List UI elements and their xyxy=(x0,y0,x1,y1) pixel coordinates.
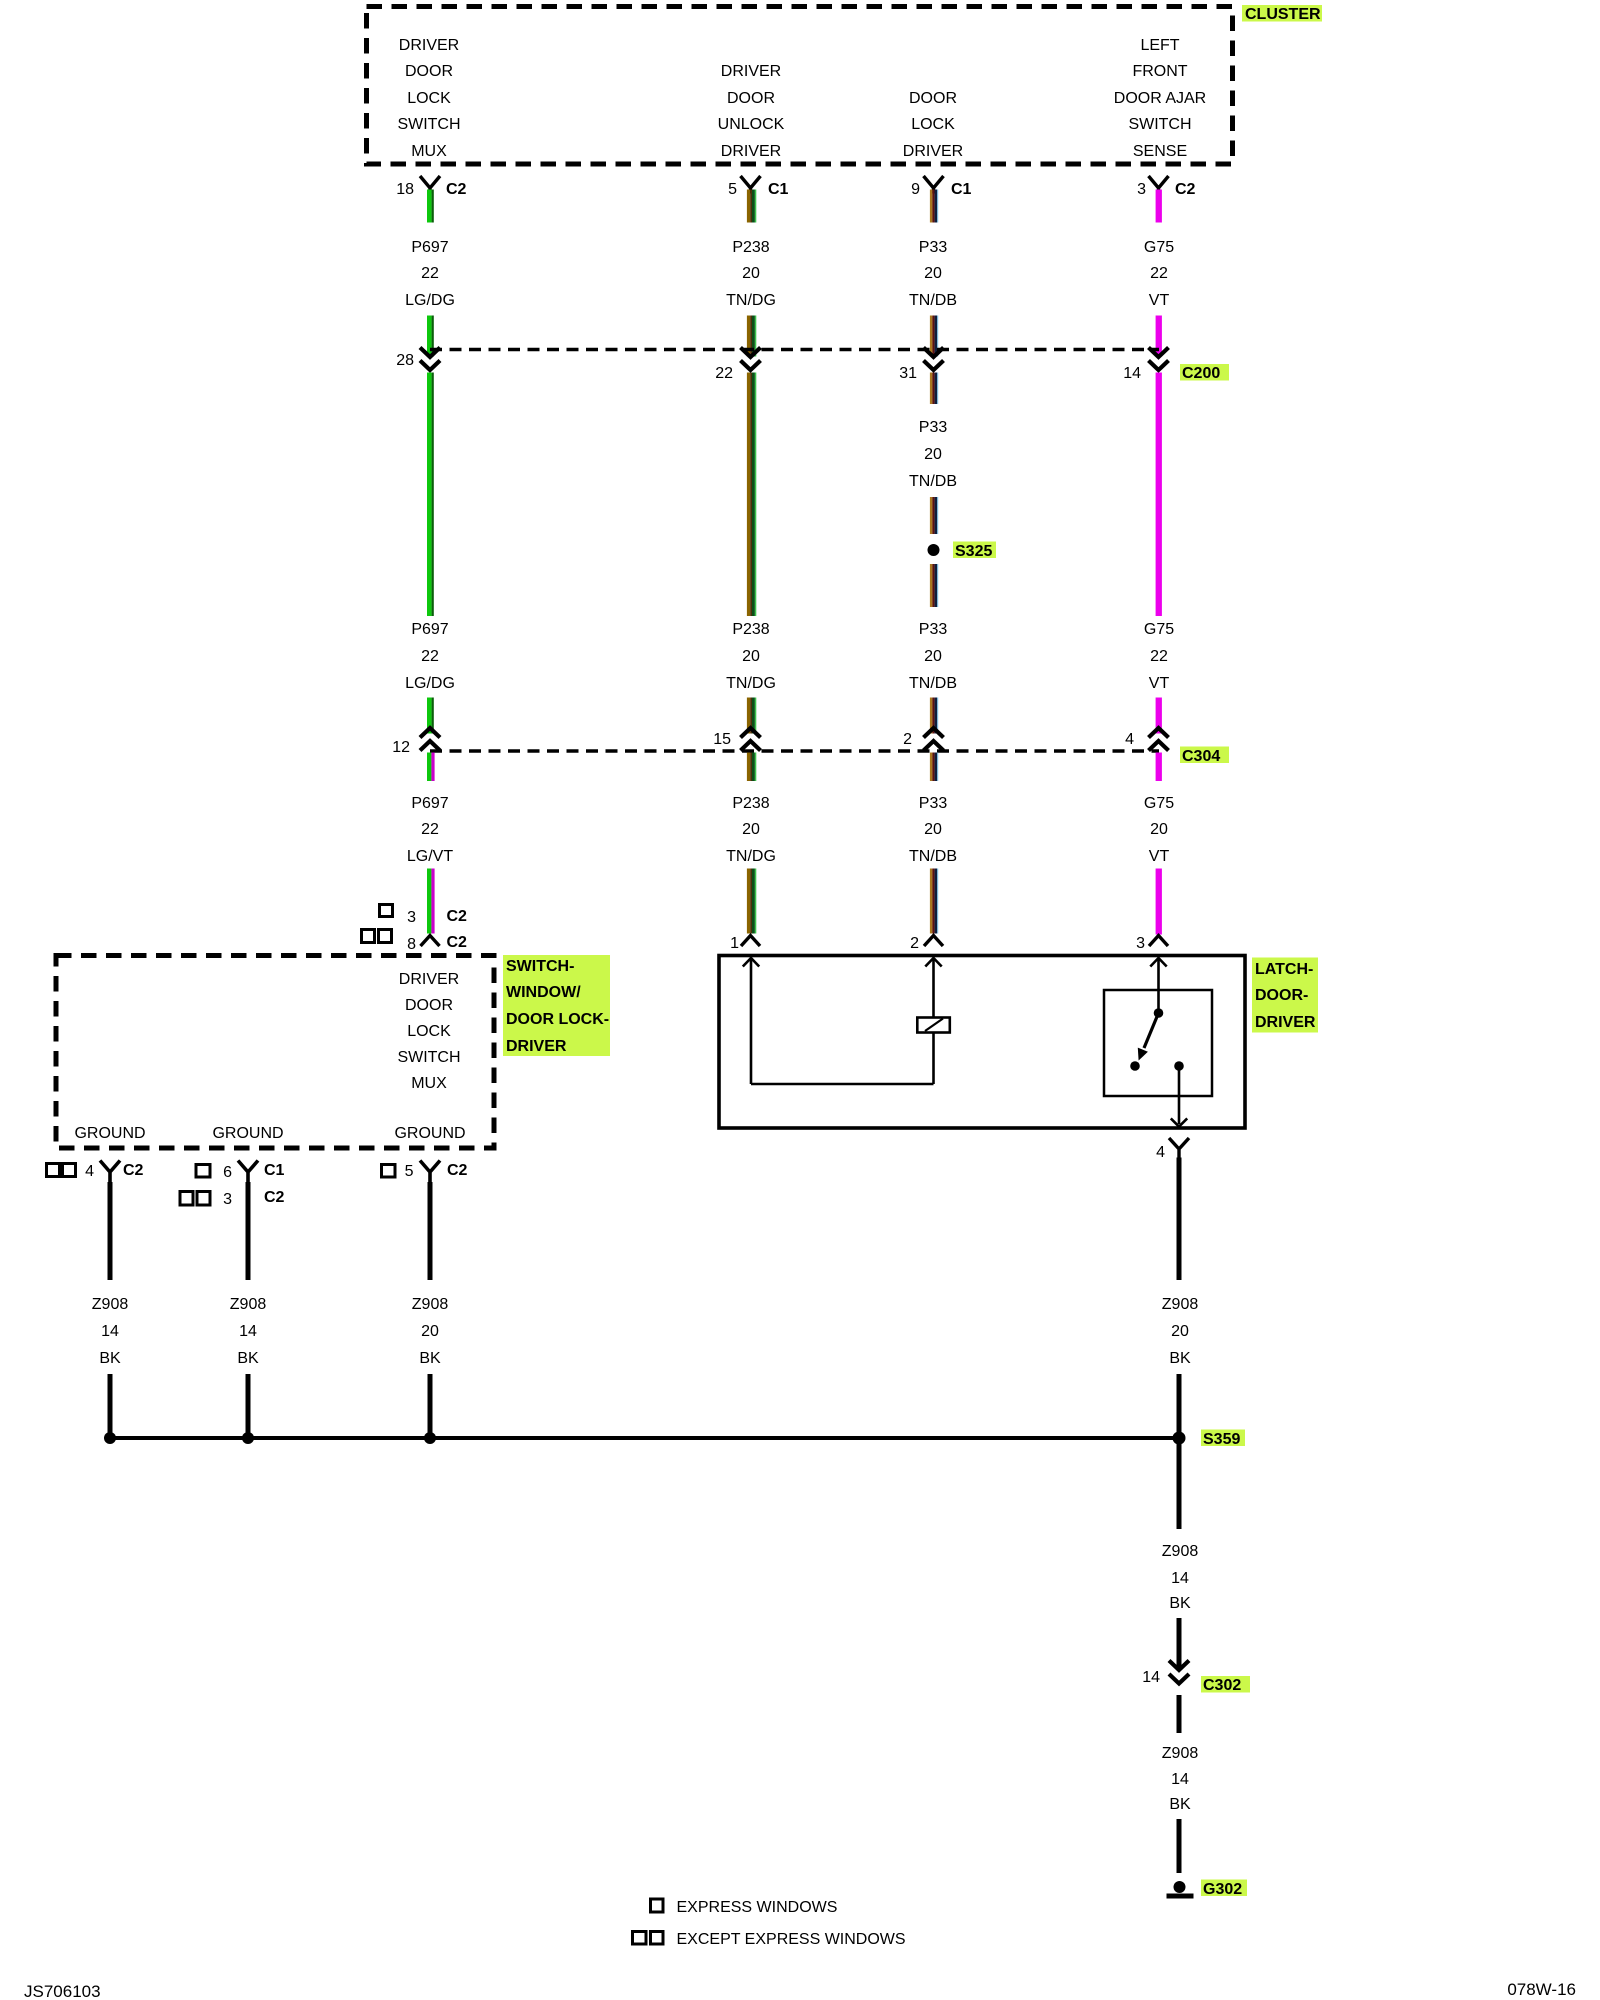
svg-text:C1: C1 xyxy=(768,181,789,198)
connector pin 3 (latch entry) xyxy=(1136,935,1168,952)
connector C304 pin 2 chevrons xyxy=(924,728,944,751)
svg-text:9: 9 xyxy=(911,181,920,198)
svg-text:1: 1 xyxy=(730,935,739,952)
svg-text:CLUSTER: CLUSTER xyxy=(1245,6,1321,23)
wire P238 20 TN/DG segment 5 xyxy=(747,753,756,782)
svg-text:28: 28 xyxy=(396,352,414,369)
wire Z908 ground left segment 2 xyxy=(108,1374,113,1436)
svg-text:C200: C200 xyxy=(1182,365,1220,382)
wire label P33 20 TN/DB (second) xyxy=(909,621,957,692)
svg-text:LOCK: LOCK xyxy=(407,90,451,107)
svg-text:12: 12 xyxy=(392,739,410,756)
svg-text:2: 2 xyxy=(910,935,919,952)
wire label P697 22 LG/DG (second) xyxy=(405,621,455,692)
svg-text:22: 22 xyxy=(421,265,439,282)
svg-text:P33: P33 xyxy=(919,419,948,436)
wire Z908 ground right segment 1 xyxy=(428,1182,433,1280)
svg-text:DRIVER: DRIVER xyxy=(399,971,459,988)
svg-text:20: 20 xyxy=(742,265,760,282)
wire label Z908 14 BK (left) xyxy=(92,1296,129,1367)
connector pin 5 C1 (cluster) xyxy=(728,176,788,198)
svg-text:BK: BK xyxy=(1169,1796,1191,1813)
wire label Z908 14 BK (below C302) xyxy=(1162,1745,1199,1813)
svg-text:3: 3 xyxy=(1137,181,1146,198)
wire internal pin1 arrow xyxy=(743,958,759,967)
svg-text:SWITCH-: SWITCH- xyxy=(506,958,574,975)
wire label P238 20 TN/DG (second) xyxy=(726,621,776,692)
svg-text:TN/DB: TN/DB xyxy=(909,675,957,692)
node SWITCH-WINDOW/DOOR LOCK-DRIVER label xyxy=(503,955,610,1056)
svg-text:G302: G302 xyxy=(1203,1881,1242,1898)
svg-text:2: 2 xyxy=(903,731,912,748)
svg-text:S359: S359 xyxy=(1203,1431,1240,1448)
svg-text:GROUND: GROUND xyxy=(394,1125,465,1142)
svg-text:5: 5 xyxy=(728,181,737,198)
option squares pin 8 (except express windows) xyxy=(362,930,392,943)
svg-text:20: 20 xyxy=(421,1323,439,1340)
svg-text:Z908: Z908 xyxy=(1162,1745,1199,1762)
svg-text:22: 22 xyxy=(421,648,439,665)
svg-text:LG/DG: LG/DG xyxy=(405,675,455,692)
splice S359 xyxy=(1173,1432,1186,1445)
svg-text:DOOR: DOOR xyxy=(405,997,453,1014)
svg-text:P238: P238 xyxy=(732,239,769,256)
svg-text:20: 20 xyxy=(924,446,942,463)
svg-text:P33: P33 xyxy=(919,621,948,638)
wire P697 22 LG/DG segment 2 xyxy=(427,316,434,357)
connector C304 dashed line xyxy=(430,749,1159,752)
wire Z908 ground left segment 1 xyxy=(108,1182,113,1280)
wire label P697 22 LG/VT xyxy=(407,795,453,865)
connector pin 9 C1 (cluster) xyxy=(911,176,971,198)
splice S325 xyxy=(928,544,940,556)
svg-text:TN/DB: TN/DB xyxy=(909,292,957,309)
svg-text:TN/DG: TN/DG xyxy=(726,292,776,309)
svg-text:14: 14 xyxy=(1171,1570,1189,1587)
wire Z908 latch pin4 segment 2 xyxy=(1177,1374,1182,1436)
wire P33 20 TN/DB segment 2 xyxy=(930,316,938,357)
svg-text:4: 4 xyxy=(1156,1144,1165,1161)
wire P33 20 TN/DB segment 1 xyxy=(930,190,938,223)
svg-text:VT: VT xyxy=(1149,292,1170,309)
wire label Z908 20 BK (latch) xyxy=(1162,1296,1199,1367)
svg-text:DRIVER: DRIVER xyxy=(721,63,781,80)
wire P33 20 TN/DB segment 4 xyxy=(930,497,938,534)
splice S359 label xyxy=(1201,1430,1245,1449)
svg-text:TN/DB: TN/DB xyxy=(909,473,957,490)
wire G75 20 VT segment 6 xyxy=(1156,869,1162,935)
splice junction right xyxy=(424,1432,436,1444)
svg-text:C1: C1 xyxy=(951,181,972,198)
svg-text:14: 14 xyxy=(1171,1771,1189,1788)
connector C200 label xyxy=(1180,364,1229,382)
svg-text:GROUND: GROUND xyxy=(212,1125,283,1142)
cluster module box xyxy=(367,7,1233,165)
svg-text:G75: G75 xyxy=(1144,795,1174,812)
wire Z908 above C302 xyxy=(1177,1618,1182,1668)
wire P33 20 TN/DB segment 6 xyxy=(930,698,938,734)
svg-text:Z908: Z908 xyxy=(230,1296,267,1313)
svg-text:BK: BK xyxy=(1169,1350,1191,1367)
svg-text:C2: C2 xyxy=(447,908,468,925)
svg-text:G75: G75 xyxy=(1144,621,1174,638)
option square pin 6 (express windows) xyxy=(196,1165,210,1178)
svg-text:22: 22 xyxy=(1150,648,1168,665)
svg-text:DOOR: DOOR xyxy=(727,90,775,107)
svg-text:MUX: MUX xyxy=(411,1075,447,1092)
svg-text:G75: G75 xyxy=(1144,239,1174,256)
svg-text:20: 20 xyxy=(924,265,942,282)
svg-text:LATCH-: LATCH- xyxy=(1255,961,1313,978)
svg-text:14: 14 xyxy=(1142,1669,1160,1686)
wire P238 20 TN/DG segment 3 xyxy=(747,373,756,617)
splice junction middle xyxy=(242,1432,254,1444)
svg-text:VT: VT xyxy=(1149,675,1170,692)
pin label LEFT FRONT DOOR AJAR SWITCH SENSE (cluster) xyxy=(1114,37,1206,160)
svg-text:DOOR: DOOR xyxy=(405,63,453,80)
svg-text:Z908: Z908 xyxy=(1162,1296,1199,1313)
svg-text:LG/DG: LG/DG xyxy=(405,292,455,309)
svg-text:DRIVER: DRIVER xyxy=(721,143,781,160)
svg-text:22: 22 xyxy=(421,821,439,838)
svg-text:SWITCH: SWITCH xyxy=(1128,116,1191,133)
splice S325 label xyxy=(953,542,996,561)
svg-text:14: 14 xyxy=(1123,365,1141,382)
svg-text:LEFT: LEFT xyxy=(1140,37,1179,54)
connector C200 pin 22 chevrons xyxy=(741,348,761,371)
node LATCH-DOOR-DRIVER label xyxy=(1252,958,1318,1033)
svg-text:C2: C2 xyxy=(123,1162,144,1179)
svg-text:DOOR-: DOOR- xyxy=(1255,987,1308,1004)
svg-text:JS706103: JS706103 xyxy=(24,1982,101,2000)
svg-text:DRIVER: DRIVER xyxy=(903,143,963,160)
pin label DRIVER DOOR LOCK SWITCH MUX (cluster) xyxy=(397,37,460,160)
wire internal pin3 arrow and vertical xyxy=(1150,958,1166,1013)
svg-text:20: 20 xyxy=(924,648,942,665)
ground G302 symbol xyxy=(1167,1881,1194,1899)
svg-text:GROUND: GROUND xyxy=(74,1125,145,1142)
svg-text:4: 4 xyxy=(85,1163,94,1180)
svg-text:15: 15 xyxy=(713,731,731,748)
wire internal right vertical to coil xyxy=(932,1032,935,1084)
wire internal pin4 vertical with arrow xyxy=(1171,1066,1187,1127)
svg-text:C2: C2 xyxy=(446,181,467,198)
connector C200 pin 28 chevrons xyxy=(420,348,440,371)
svg-text:P33: P33 xyxy=(919,239,948,256)
svg-text:SWITCH: SWITCH xyxy=(397,1049,460,1066)
wire internal pin1 vertical xyxy=(750,959,753,1085)
wire Z908 below S359 xyxy=(1177,1444,1182,1529)
svg-text:3: 3 xyxy=(1136,935,1145,952)
svg-text:DRIVER: DRIVER xyxy=(506,1038,567,1055)
wire G75 20 VT segment 5 xyxy=(1156,753,1162,782)
svg-text:LOCK: LOCK xyxy=(911,116,955,133)
svg-text:DOOR AJAR: DOOR AJAR xyxy=(1114,90,1206,107)
svg-text:4: 4 xyxy=(1125,731,1134,748)
switch contact left xyxy=(1130,1061,1140,1071)
switch blade xyxy=(1138,1013,1159,1061)
switch common contact xyxy=(1154,1008,1164,1018)
connector C200 dashed line xyxy=(430,348,1159,351)
wire P697 22 LG/VT segment 6 xyxy=(427,869,435,934)
wire P33 20 TN/DB segment 7 xyxy=(930,753,938,782)
svg-text:31: 31 xyxy=(899,365,917,382)
svg-text:SWITCH: SWITCH xyxy=(397,116,460,133)
svg-text:20: 20 xyxy=(1171,1323,1189,1340)
wire Z908 to ground G302 xyxy=(1177,1819,1182,1873)
wire Z908 below C302 xyxy=(1177,1695,1182,1733)
pin label DOOR LOCK DRIVER (cluster) xyxy=(903,90,963,160)
connector pin 18 C2 (cluster) xyxy=(396,176,466,198)
svg-text:BK: BK xyxy=(419,1350,441,1367)
svg-text:C302: C302 xyxy=(1203,1677,1241,1694)
wire P238 20 TN/DG segment 6 xyxy=(747,869,756,934)
node CLUSTER label xyxy=(1242,5,1322,23)
wire P238 20 TN/DG segment 2 xyxy=(747,316,756,357)
svg-text:BK: BK xyxy=(99,1350,121,1367)
svg-text:DRIVER: DRIVER xyxy=(399,37,459,54)
splice junction left xyxy=(104,1432,116,1444)
option squares pin 4 (except express windows) xyxy=(47,1164,76,1177)
svg-text:20: 20 xyxy=(742,648,760,665)
svg-text:14: 14 xyxy=(239,1323,257,1340)
wire label G75 20 VT (third) xyxy=(1144,795,1174,865)
svg-text:P238: P238 xyxy=(732,795,769,812)
svg-text:078W-16: 078W-16 xyxy=(1507,1980,1576,1999)
svg-text:Z908: Z908 xyxy=(1162,1543,1199,1560)
wire label P238 20 TN/DG (third) xyxy=(726,795,776,865)
svg-text:C2: C2 xyxy=(1175,181,1196,198)
option square pin 5 (express windows) xyxy=(382,1165,396,1178)
svg-text:SENSE: SENSE xyxy=(1133,143,1187,160)
connector pin 5 C2 (ground right) xyxy=(405,1161,468,1183)
svg-text:LG/VT: LG/VT xyxy=(407,848,453,865)
wire label Z908 14 BK (middle) xyxy=(230,1296,267,1367)
wire label Z908 14 BK (below S359) xyxy=(1162,1543,1199,1612)
wire G75 22 VT segment 2 xyxy=(1156,316,1162,357)
wire label P697 22 LG/DG xyxy=(405,239,455,309)
connector pin 4 (latch bottom) xyxy=(1156,1138,1189,1161)
option square pin 3 (express windows) xyxy=(380,905,393,917)
svg-text:P697: P697 xyxy=(411,621,448,638)
wire G75 22 VT segment 4 xyxy=(1156,698,1162,734)
latch module box xyxy=(719,956,1245,1129)
pin label DRIVER DOOR LOCK SWITCH MUX (switch box) xyxy=(397,971,460,1092)
svg-text:3: 3 xyxy=(407,909,416,926)
wire P697 22 LG/DG segment 4 xyxy=(427,698,434,734)
svg-text:LOCK: LOCK xyxy=(407,1023,451,1040)
svg-text:22: 22 xyxy=(715,365,733,382)
pin label DRIVER DOOR UNLOCK DRIVER (cluster) xyxy=(718,63,785,160)
wire internal bottom horizontal xyxy=(751,1083,934,1086)
wire G75 22 VT segment 1 xyxy=(1156,190,1162,223)
svg-text:18: 18 xyxy=(396,181,414,198)
svg-text:EXCEPT EXPRESS WINDOWS: EXCEPT EXPRESS WINDOWS xyxy=(677,1931,906,1948)
connector pin 2 (latch entry) xyxy=(910,935,943,952)
svg-text:S325: S325 xyxy=(955,543,992,560)
wire label Z908 20 BK (right) xyxy=(412,1296,449,1367)
svg-text:C2: C2 xyxy=(264,1189,285,1206)
wire P33 20 TN/DB segment 8 xyxy=(930,869,938,934)
svg-text:3: 3 xyxy=(223,1191,232,1208)
svg-text:5: 5 xyxy=(405,1163,414,1180)
wire P33 20 TN/DB segment 5 xyxy=(930,564,938,607)
svg-text:C1: C1 xyxy=(264,1162,285,1179)
svg-text:Z908: Z908 xyxy=(92,1296,129,1313)
wire G75 22 VT segment 3 xyxy=(1156,373,1162,617)
svg-text:Z908: Z908 xyxy=(412,1296,449,1313)
wire label P33 20 TN/DB (above S325) xyxy=(909,419,957,490)
legend except express windows squares xyxy=(633,1932,664,1945)
svg-text:EXPRESS WINDOWS: EXPRESS WINDOWS xyxy=(677,1899,838,1916)
switch contact right xyxy=(1174,1061,1184,1071)
wire label P238 20 TN/DG xyxy=(726,239,776,309)
svg-text:20: 20 xyxy=(924,821,942,838)
svg-text:20: 20 xyxy=(742,821,760,838)
connector C304 pin 4 chevrons xyxy=(1149,728,1169,751)
svg-text:22: 22 xyxy=(1150,265,1168,282)
svg-text:DRIVER: DRIVER xyxy=(1255,1014,1316,1031)
svg-text:BK: BK xyxy=(1169,1595,1191,1612)
relay coil (lock motor) xyxy=(917,1018,950,1033)
wire label G75 22 VT (second) xyxy=(1144,621,1174,692)
svg-text:14: 14 xyxy=(101,1323,119,1340)
wire Z908 latch pin4 segment 1 xyxy=(1177,1158,1182,1281)
svg-text:MUX: MUX xyxy=(411,143,447,160)
connector C304 pin 15 chevrons xyxy=(741,728,761,751)
wire label G75 22 VT xyxy=(1144,239,1174,309)
switch module box (driver door lock switch mux) xyxy=(56,956,494,1149)
option squares pin 3 (except express windows) xyxy=(180,1192,210,1206)
svg-text:VT: VT xyxy=(1149,848,1170,865)
svg-text:TN/DG: TN/DG xyxy=(726,848,776,865)
wire P33 20 TN/DB segment 3 xyxy=(930,373,938,405)
connector pin 3 C2 (cluster) xyxy=(1137,176,1195,198)
connector C304 label xyxy=(1180,747,1229,766)
svg-text:P33: P33 xyxy=(919,795,948,812)
connector C302 label xyxy=(1201,1676,1250,1694)
svg-text:P697: P697 xyxy=(411,239,448,256)
wire P697 22 LG/VT segment 5 xyxy=(427,753,435,782)
switch sub-box (ajar switch) xyxy=(1104,990,1212,1096)
svg-text:P697: P697 xyxy=(411,795,448,812)
svg-text:C2: C2 xyxy=(447,934,468,951)
svg-text:P238: P238 xyxy=(732,621,769,638)
svg-text:DOOR: DOOR xyxy=(909,90,957,107)
svg-text:WINDOW/: WINDOW/ xyxy=(506,984,581,1001)
wire P238 20 TN/DG segment 1 xyxy=(747,190,756,223)
svg-text:UNLOCK: UNLOCK xyxy=(718,116,785,133)
svg-text:20: 20 xyxy=(1150,821,1168,838)
svg-text:C304: C304 xyxy=(1182,748,1220,765)
connector pin 6 C1 (ground middle) xyxy=(223,1161,284,1183)
svg-text:6: 6 xyxy=(223,1164,232,1181)
connector C304 pin 12 chevrons xyxy=(420,728,440,751)
connector C302 pin 14 chevrons xyxy=(1169,1661,1189,1684)
svg-text:FRONT: FRONT xyxy=(1132,63,1187,80)
connector pin 1 (latch entry) xyxy=(730,935,760,952)
svg-text:TN/DG: TN/DG xyxy=(726,675,776,692)
connector pin 8 C2 (switch entry) xyxy=(407,934,467,953)
pin number 3 C2 row (ground middle second) xyxy=(223,1189,284,1208)
wire internal coil to pin2 arrow xyxy=(925,958,941,1018)
wire Z908 ground middle segment 2 xyxy=(246,1374,251,1436)
svg-text:TN/DB: TN/DB xyxy=(909,848,957,865)
svg-text:BK: BK xyxy=(237,1350,259,1367)
connector pin 4 C2 (ground left) xyxy=(85,1161,143,1183)
wire label P33 20 TN/DB (third) xyxy=(909,795,957,865)
connector C200 pin 31 chevrons xyxy=(924,348,944,371)
svg-text:C2: C2 xyxy=(447,1162,468,1179)
wire splice bus horizontal xyxy=(109,1436,1180,1440)
pin number 3 C2 row xyxy=(407,908,467,926)
svg-text:8: 8 xyxy=(407,936,416,953)
wire P697 22 LG/DG segment 3 xyxy=(427,373,434,617)
ground G302 label xyxy=(1201,1880,1247,1899)
wire Z908 ground right segment 2 xyxy=(428,1374,433,1436)
connector C200 pin 14 chevrons xyxy=(1149,348,1169,371)
svg-text:DOOR LOCK-: DOOR LOCK- xyxy=(506,1011,609,1028)
wire P697 22 LG/DG segment 1 xyxy=(427,190,434,223)
legend express windows square xyxy=(651,1899,664,1912)
wire Z908 ground middle segment 1 xyxy=(246,1182,251,1280)
wire P238 20 TN/DG segment 4 xyxy=(747,698,756,734)
wire label P33 20 TN/DB xyxy=(909,239,957,309)
